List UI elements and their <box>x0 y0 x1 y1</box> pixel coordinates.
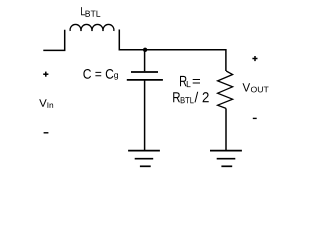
label RL: R <box>180 76 187 86</box>
ground (under capacitor) <box>128 151 160 167</box>
minus sign (Vout polarity) <box>253 117 257 119</box>
label Vin: In subscript <box>48 102 54 108</box>
wire: resistor bottom to ground <box>225 108 227 150</box>
plus sign (Vin polarity) <box>43 72 48 77</box>
plus sign (Vout polarity) <box>252 56 257 61</box>
label LBTL: BTL subscript <box>86 11 101 17</box>
wire: capacitor bottom to ground <box>144 80 146 150</box>
label LBTL: L <box>81 7 85 15</box>
minus sign (Vin polarity) <box>44 132 49 134</box>
capacitor C bottom plate <box>127 79 163 81</box>
capacitor C top plate <box>131 71 158 73</box>
label capacitor value: C = C <box>83 69 113 79</box>
label RBTL/2: / 2 <box>195 92 209 103</box>
label RBTL/2: BTL subscript <box>181 97 194 103</box>
wire: node A to capacitor top plate <box>144 50 146 71</box>
wire: inductor output to node A and down to resistor RL <box>119 30 226 72</box>
label Vout: V <box>243 83 251 91</box>
node A junction dot <box>143 48 147 52</box>
label Vin: V <box>39 99 47 107</box>
wire: input stub to inductor <box>43 30 64 51</box>
label capacitor value: g subscript <box>114 73 118 79</box>
label Vout: OUT subscript <box>251 87 269 93</box>
label RL: L subscript <box>187 81 191 87</box>
label RBTL/2: R <box>173 92 180 102</box>
label RL: equals sign <box>193 79 200 84</box>
inductor LBTL <box>70 24 114 31</box>
resistor RL zigzag <box>218 71 233 108</box>
ground (under resistor) <box>210 151 242 167</box>
